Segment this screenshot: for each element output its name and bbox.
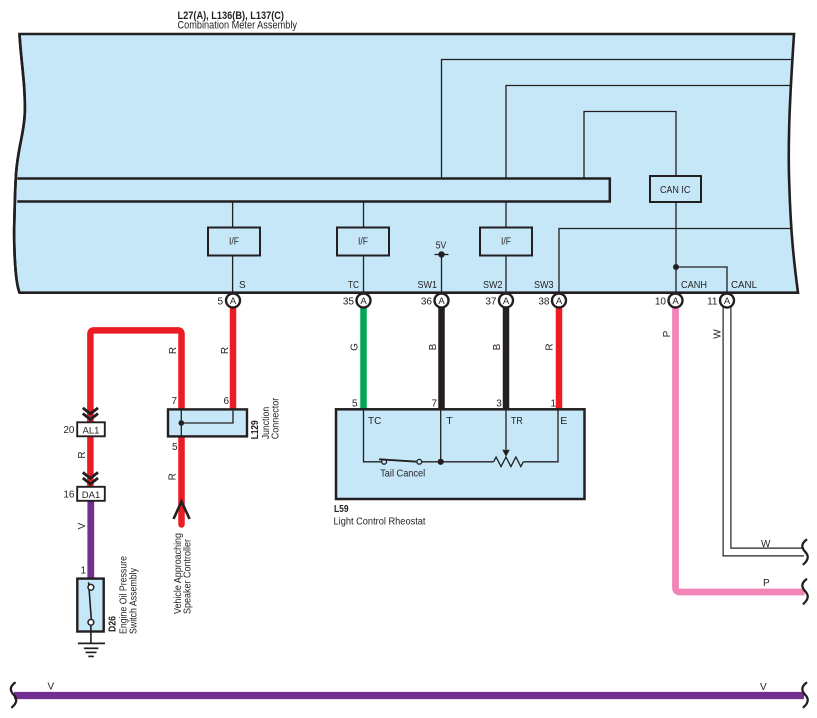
svg-text:A: A <box>438 296 445 307</box>
svg-text:CAN IC: CAN IC <box>660 185 691 196</box>
svg-text:A: A <box>556 296 563 307</box>
wire white CANL W outline right <box>731 300 804 548</box>
L59 internal T line <box>440 411 442 462</box>
svg-text:B: B <box>428 343 439 350</box>
svg-text:36: 36 <box>421 296 433 307</box>
svg-text:R: R <box>220 347 231 354</box>
svg-text:16: 16 <box>63 490 75 501</box>
tail cancel switch lever <box>379 459 417 461</box>
tail cancel switch contact right <box>417 459 422 464</box>
pin circle SW3 38 <box>538 294 566 308</box>
bottom violet wire V <box>14 692 804 699</box>
internal wire S I/F to bus bar <box>232 201 234 228</box>
L59 internal wire to E <box>523 411 558 462</box>
svg-text:1: 1 <box>80 566 86 577</box>
L129 junction dot <box>179 420 185 426</box>
wire break squiggle P <box>802 579 807 603</box>
svg-text:CANH: CANH <box>681 280 707 291</box>
combination meter assembly box L27 <box>14 34 798 293</box>
wire black SW1 <box>438 300 445 411</box>
internal wire TC I/F to pin TC <box>363 256 365 293</box>
internal wire CAN IC to CANH pin <box>675 202 677 292</box>
svg-text:R: R <box>77 451 88 458</box>
internal wire line B (SW2 branch to right edge) <box>506 86 792 180</box>
internal wire SW2 I/F to bus bar <box>505 201 507 228</box>
wire red L129 pin5 to speaker controller <box>178 437 185 525</box>
svg-text:Combination Meter Assembly: Combination Meter Assembly <box>178 20 298 32</box>
svg-text:TC: TC <box>368 415 382 427</box>
wire green TC <box>360 300 367 411</box>
svg-text:5: 5 <box>217 296 223 307</box>
D26 switch lever <box>89 582 92 619</box>
svg-text:R: R <box>168 347 179 354</box>
svg-text:A: A <box>724 296 731 307</box>
CAN IC box <box>650 176 701 202</box>
svg-text:7: 7 <box>431 399 437 410</box>
pin circle TC 35 <box>343 294 371 308</box>
pin circle CANH 10 <box>655 294 683 308</box>
svg-text:AL1: AL1 <box>83 425 100 436</box>
svg-text:P: P <box>763 578 770 589</box>
page arrow (double chevron) above AL1 <box>83 408 98 420</box>
pin circle CANL 11 <box>707 294 734 308</box>
svg-text:SW1: SW1 <box>418 280 438 291</box>
wire break squiggle V right <box>802 683 807 707</box>
tail cancel switch contact left <box>382 459 387 464</box>
D26 switch contact bottom <box>88 619 94 625</box>
svg-text:38: 38 <box>538 296 550 307</box>
svg-text:A: A <box>360 296 367 307</box>
wire black SW2 <box>503 300 510 411</box>
L129 internal pin line 7-5 <box>180 409 182 436</box>
svg-text:I/F: I/F <box>229 237 239 248</box>
svg-text:E: E <box>560 415 567 427</box>
internal wire TC I/F to bus bar <box>363 201 365 228</box>
I/F box S <box>208 228 260 256</box>
wire red SW3 <box>556 300 563 411</box>
svg-text:L59: L59 <box>334 504 349 515</box>
svg-text:1: 1 <box>550 399 556 410</box>
svg-text:SW3: SW3 <box>534 280 554 291</box>
svg-text:TR: TR <box>511 415 523 427</box>
svg-text:V: V <box>760 682 767 693</box>
D26 wire to ground <box>90 625 92 643</box>
svg-text:V: V <box>77 522 88 529</box>
I/F box SW2 <box>480 228 532 256</box>
svg-text:R: R <box>168 473 179 480</box>
svg-text:11: 11 <box>707 296 718 307</box>
page arrow (double chevron) above DA1 <box>83 472 98 484</box>
wire violet DA1 to D26 <box>87 501 94 578</box>
internal wire SW3 to right edge <box>559 229 792 293</box>
svg-text:Light Control Rheostat: Light Control Rheostat <box>334 517 426 528</box>
connector DA1 <box>77 487 105 501</box>
svg-text:7: 7 <box>171 396 177 407</box>
TR wiper arrowhead <box>502 450 509 457</box>
internal wire branch to CANL pin <box>676 267 727 292</box>
svg-text:20: 20 <box>63 425 75 436</box>
svg-text:I/F: I/F <box>358 237 368 248</box>
L59 junction dot at T <box>438 459 444 465</box>
svg-text:5: 5 <box>352 399 358 410</box>
svg-text:Speaker Controller: Speaker Controller <box>182 538 193 614</box>
box left torn edge redraw <box>14 34 25 293</box>
light control rheostat L59 box <box>336 409 585 499</box>
L59 internal TR wiper line <box>505 411 507 450</box>
pin circle SW2 37 <box>485 294 513 308</box>
wire pink CANH P <box>676 300 805 592</box>
wire break squiggle W <box>802 540 807 564</box>
wire white CANL W outline left <box>723 300 804 556</box>
svg-text:L129: L129 <box>250 420 261 439</box>
svg-text:Connector: Connector <box>271 397 282 439</box>
svg-text:P: P <box>662 330 673 337</box>
svg-text:G: G <box>349 343 360 351</box>
svg-text:B: B <box>492 343 503 350</box>
svg-text:V: V <box>48 682 55 693</box>
L129 internal bus to pin 6 <box>181 411 233 423</box>
engine oil pressure switch D26 <box>77 579 103 632</box>
bus bar rectangle <box>17 179 610 202</box>
svg-text:37: 37 <box>485 296 497 307</box>
svg-text:D26: D26 <box>108 616 119 632</box>
svg-text:6: 6 <box>223 396 229 407</box>
page arrow (chevron up) speaker controller <box>174 502 190 520</box>
junction dot CANH branch <box>673 264 679 270</box>
svg-text:10: 10 <box>655 296 667 307</box>
svg-text:TC: TC <box>348 280 359 291</box>
D26 switch contact top <box>88 584 94 590</box>
svg-text:W: W <box>713 329 724 339</box>
pin circle SW1 36 <box>421 294 449 308</box>
ground symbol <box>78 643 105 656</box>
pin circle S 5 <box>217 294 240 308</box>
svg-text:T: T <box>446 415 453 427</box>
L59 internal TC line <box>364 411 382 462</box>
internal wire line C (bus to CAN IC) <box>584 112 676 180</box>
internal wire SW2 I/F to pin SW2 <box>505 256 507 293</box>
svg-text:A: A <box>503 296 510 307</box>
wire red from meter to AL1 and L129 pin7 <box>90 330 181 421</box>
internal wire S I/F to pin S <box>232 256 234 293</box>
svg-text:R: R <box>545 343 556 350</box>
svg-text:35: 35 <box>343 296 355 307</box>
wire red AL1 to DA1 <box>87 437 94 487</box>
5V supply symbol <box>435 254 449 256</box>
wire break squiggle V left <box>11 683 16 707</box>
svg-text:I/F: I/F <box>501 237 511 248</box>
svg-text:A: A <box>672 296 679 307</box>
svg-text:3: 3 <box>496 399 502 410</box>
svg-text:A: A <box>230 296 237 307</box>
L59 internal wire right of switch <box>422 461 494 463</box>
svg-text:CANL: CANL <box>731 280 757 291</box>
svg-text:Tail Cancel: Tail Cancel <box>380 469 425 480</box>
svg-text:SW2: SW2 <box>483 280 503 291</box>
I/F box TC <box>337 228 389 256</box>
internal wire 5V to pin SW1 <box>441 255 443 293</box>
svg-text:W: W <box>761 539 771 550</box>
wire red S pin5 to L129 pin6 <box>230 300 237 411</box>
svg-text:DA1: DA1 <box>82 490 100 501</box>
rheostat resistor zigzag <box>494 457 524 467</box>
connector AL1 <box>77 422 105 436</box>
junction connector L129 <box>168 409 247 436</box>
svg-text:5V: 5V <box>436 241 447 252</box>
svg-text:S: S <box>239 280 246 291</box>
internal wire line A (SW1 branch to right edge) <box>442 60 793 180</box>
svg-text:Switch Assembly: Switch Assembly <box>128 568 139 634</box>
svg-text:5: 5 <box>172 442 178 453</box>
